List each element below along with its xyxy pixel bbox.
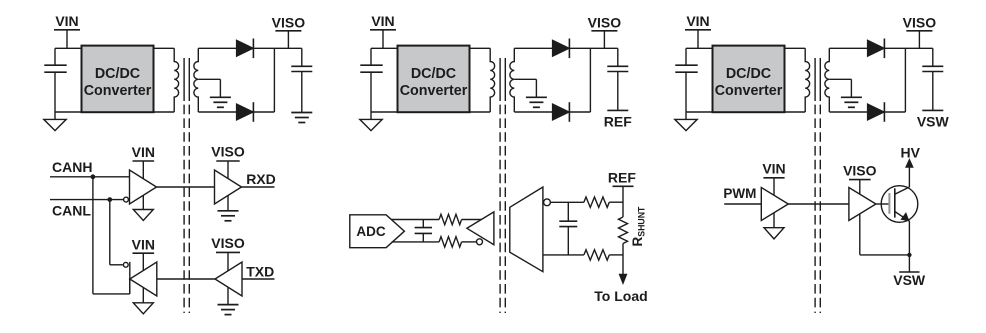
svg-text:To Load: To Load — [594, 288, 647, 304]
wire VISO supply U8 — [859, 180, 861, 255]
wire input top panel 2 — [371, 47, 398, 49]
transformer T3 secondary winding — [825, 48, 829, 112]
junction driver return — [907, 253, 911, 257]
ground U2A — [218, 210, 239, 212]
wire VIN supply U7 — [773, 178, 775, 228]
svg-text:DC/DC: DC/DC — [411, 66, 456, 82]
resistor R2B — [439, 237, 462, 247]
buffer U8 gate driver — [849, 188, 876, 221]
ground input panel 1 — [54, 112, 56, 119]
buffer U2B TXD — [215, 262, 242, 296]
wire receive signal across barrier — [157, 186, 215, 188]
svg-text:DC/DC: DC/DC — [95, 66, 140, 82]
transformer T1 secondary winding — [194, 48, 198, 112]
ground output panel 1 — [291, 112, 312, 114]
wire driver enable stub — [129, 262, 131, 294]
capacitor C3A input — [675, 64, 697, 66]
inverting bubble U1A input — [124, 197, 129, 202]
wire VISO supply U2B — [227, 252, 229, 304]
wire VISO stem panel 3 — [918, 31, 920, 49]
wire secondary top panel 2 — [514, 47, 552, 49]
svg-text:VIN: VIN — [762, 161, 785, 177]
isolation barrier panel 1 — [183, 105, 185, 313]
wire CANH — [50, 176, 130, 178]
diode D1A rectifier top — [236, 40, 253, 56]
wire center tap panel 3 — [829, 78, 851, 80]
capacitor C2A input — [360, 64, 382, 66]
capacitor C2C filter — [422, 220, 424, 228]
diode D1B rectifier bottom — [236, 104, 253, 120]
wire R2C to shunt top — [609, 201, 623, 203]
svg-text:Converter: Converter — [84, 83, 152, 99]
capacitor C2D filter — [567, 202, 569, 221]
wire input bottom panel 2 — [371, 111, 398, 113]
wire input left rail panel 1 — [54, 48, 56, 65]
wire collector to HV — [908, 167, 910, 187]
transformer T1 primary winding — [174, 48, 178, 112]
block ADC — [350, 215, 405, 248]
wire R2D to shunt bottom — [609, 254, 623, 256]
resistor RSHUNT — [619, 217, 628, 244]
transformer T3 primary winding — [805, 48, 809, 112]
wire center tap panel 1 — [198, 78, 220, 80]
wire sense plus — [550, 201, 584, 203]
wire converter to primary top panel 1 — [154, 47, 175, 49]
svg-text:PWM: PWM — [723, 186, 756, 201]
arrow HV — [906, 159, 913, 167]
svg-text:VIN: VIN — [55, 13, 78, 29]
wire rectifier output top panel 2 — [569, 47, 617, 49]
svg-text:ADC: ADC — [356, 224, 385, 239]
wire gate signal across barrier — [788, 203, 849, 205]
isolation barrier panel 3 — [814, 105, 816, 313]
svg-text:VIN: VIN — [132, 236, 155, 252]
resistor R2C — [584, 197, 609, 207]
ground center tap panel 2 — [526, 96, 547, 98]
wire VISO supply U2A — [227, 161, 229, 211]
svg-text:VSW: VSW — [893, 272, 926, 288]
wire CANH to driver output — [92, 177, 94, 294]
wire secondary top panel 1 — [198, 47, 236, 49]
wire transmit signal across barrier — [157, 278, 215, 280]
svg-text:CANH: CANH — [52, 159, 92, 175]
capacitor C1A input — [44, 64, 66, 66]
transformer T2 secondary winding — [510, 48, 514, 112]
wire R2B to amplifier — [462, 241, 477, 243]
ground input panel 2 — [370, 112, 372, 119]
svg-text:Converter: Converter — [715, 83, 783, 99]
svg-text:VISO: VISO — [272, 14, 306, 30]
svg-text:VIN: VIN — [371, 13, 394, 29]
wire secondary bottom panel 2 — [514, 111, 552, 113]
wire RXD output — [242, 186, 275, 188]
wire input top panel 1 — [55, 47, 82, 49]
wire input bottom panel 3 — [686, 111, 713, 113]
svg-text:REF: REF — [608, 170, 636, 186]
wire VIN supply U1A — [142, 161, 144, 210]
wire rectifier output top panel 1 — [253, 47, 301, 49]
svg-text:VISO: VISO — [211, 144, 245, 160]
wire rectifier output top panel 3 — [884, 47, 932, 49]
wire VIN stem panel 1 — [66, 30, 68, 49]
wire ADC plus — [392, 219, 440, 221]
node VSW rail emitter — [899, 271, 919, 273]
inverting bubble U6 — [544, 199, 551, 206]
wire CANL to driver enable — [109, 200, 111, 265]
svg-text:REF: REF — [604, 114, 632, 130]
capacitor C2B output — [617, 48, 619, 66]
transistor Q1 IGBT — [881, 186, 918, 223]
transformer T2 core — [499, 58, 501, 101]
ground U2B — [218, 304, 239, 306]
wire shunt to load — [622, 244, 624, 275]
wire secondary top panel 3 — [829, 47, 867, 49]
isolation barrier panel 2 — [499, 105, 501, 313]
wire emitter to VSW — [908, 221, 910, 272]
ground input panel 3 — [685, 112, 687, 119]
wire R2A to amplifier — [462, 219, 482, 221]
ground U1A — [133, 210, 153, 221]
wire ADC minus — [392, 241, 440, 243]
wire converter to primary top panel 2 — [470, 47, 491, 49]
svg-text:CANL: CANL — [52, 203, 91, 219]
inverting bubble U5 — [477, 239, 483, 245]
transformer T3 core — [814, 58, 816, 101]
modulator U6 — [510, 187, 543, 272]
svg-text:VISO: VISO — [211, 235, 245, 251]
ground U7 — [764, 228, 784, 239]
transformer T1 core — [183, 58, 185, 101]
wire input top panel 3 — [686, 47, 713, 49]
wire converter to primary bottom panel 3 — [785, 111, 806, 113]
wire sense minus — [543, 254, 584, 256]
svg-text:VISO: VISO — [588, 14, 622, 30]
svg-text:DC/DC: DC/DC — [726, 66, 771, 82]
wire CANL — [50, 199, 123, 201]
wire converter to primary top panel 3 — [785, 47, 806, 49]
wire converter to primary bottom panel 1 — [154, 111, 175, 113]
svg-text:HV: HV — [900, 144, 920, 160]
svg-text:TXD: TXD — [246, 263, 274, 279]
U1 DC/DC Converter — [82, 46, 154, 113]
wire REF to shunt — [622, 186, 624, 217]
svg-text:VISO: VISO — [903, 14, 937, 30]
junction CANH — [91, 174, 96, 179]
capacitor C1B output — [301, 48, 303, 66]
ground center tap panel 1 — [210, 96, 231, 98]
transformer T2 primary winding — [490, 48, 494, 112]
ground center tap panel 3 — [841, 96, 862, 98]
buffer U1A receiver — [130, 170, 157, 204]
wire input left rail panel 3 — [685, 48, 687, 65]
wire TXD input — [242, 278, 275, 280]
diode D3A rectifier top — [867, 40, 884, 56]
svg-text:Converter: Converter — [400, 83, 468, 99]
U2 DC/DC Converter — [398, 46, 470, 113]
wire VIN stem panel 3 — [697, 30, 699, 49]
wire center tap panel 2 — [514, 78, 536, 80]
wire rectifier return panel 3 — [884, 111, 905, 113]
resistor R2D — [584, 250, 609, 260]
wire input bottom panel 1 — [55, 111, 82, 113]
wire input left rail panel 2 — [370, 48, 372, 65]
capacitor C3B output — [932, 48, 934, 66]
diode D2A rectifier top — [552, 40, 569, 56]
svg-text:VIN: VIN — [686, 13, 709, 29]
arrow to load — [619, 274, 626, 283]
ground U1B — [133, 303, 153, 314]
wire VISO stem panel 2 — [603, 31, 605, 49]
inverting bubble U1B enable — [123, 262, 128, 267]
wire driver return — [860, 254, 910, 256]
svg-text:VSW: VSW — [917, 114, 950, 130]
wire secondary bottom panel 1 — [198, 111, 236, 113]
diode D2B rectifier bottom — [552, 104, 569, 120]
wire PWM input — [724, 203, 761, 205]
junction CANL — [107, 197, 112, 202]
amplifier U5 — [467, 212, 494, 245]
wire VIN supply U1B — [142, 253, 144, 303]
wire rectifier return panel 2 — [569, 111, 590, 113]
buffer U1B driver — [130, 262, 157, 296]
node REF rail panel 2 — [607, 109, 628, 111]
buffer U7 PWM — [761, 188, 788, 221]
svg-text:VISO: VISO — [843, 162, 877, 178]
svg-text:RXD: RXD — [246, 171, 276, 187]
wire rectifier return panel 1 — [253, 111, 274, 113]
wire VIN stem panel 2 — [382, 30, 384, 49]
resistor R2A — [439, 214, 462, 224]
diode D3B rectifier bottom — [867, 104, 884, 120]
svg-text:VIN: VIN — [132, 144, 155, 160]
U3 DC/DC Converter — [713, 46, 785, 113]
buffer U2A RXD — [215, 170, 242, 204]
wire secondary bottom panel 3 — [829, 111, 867, 113]
wire VISO stem panel 1 — [287, 31, 289, 49]
node VSW rail panel 3 — [922, 109, 943, 111]
wire converter to primary bottom panel 2 — [470, 111, 491, 113]
